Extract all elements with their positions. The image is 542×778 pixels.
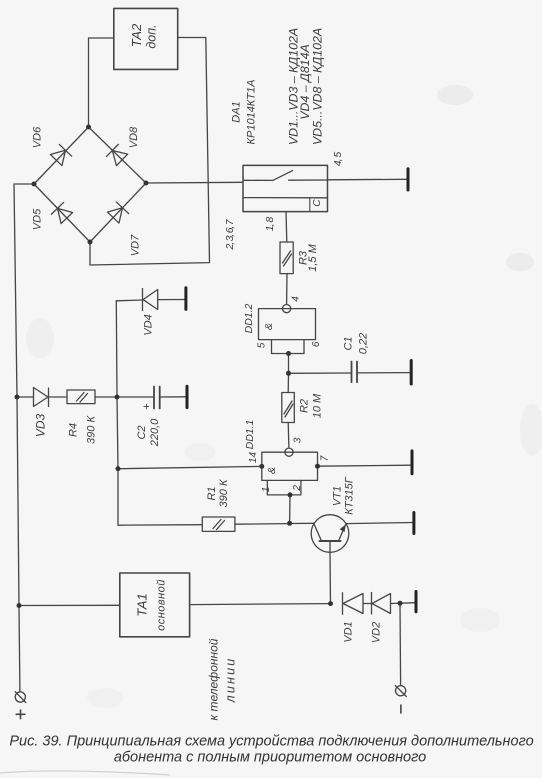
logic gate DD1.2 <box>283 305 291 313</box>
svg-text:4, 5: 4, 5 <box>332 152 344 167</box>
resistor R1 <box>202 517 235 531</box>
wire left vertical VD4/R4/R1 net <box>116 301 118 525</box>
svg-text:КР1014КТ1А: КР1014КТ1А <box>245 80 257 145</box>
svg-text:7: 7 <box>320 455 331 461</box>
svg-text:3: 3 <box>292 437 303 443</box>
wire VD4 to ground <box>158 299 186 301</box>
ground <box>412 513 415 534</box>
wire DD1.2 input pins 5,6 loop <box>272 340 305 354</box>
wire C2 to ground <box>160 396 187 398</box>
svg-text:VD2: VD2 <box>371 622 383 643</box>
svg-text:1: 1 <box>261 487 272 493</box>
wire rail to VD3 <box>17 396 33 398</box>
svg-text:1, 8: 1, 8 <box>264 217 276 232</box>
diode VD1 <box>342 593 344 614</box>
wire VD3 to R4 <box>49 396 68 398</box>
wire DD1.1 pin 7 to ground <box>318 465 413 466</box>
svg-text:С2: С2 <box>136 425 148 439</box>
diode VD8 <box>106 144 128 166</box>
svg-text:0,22: 0,22 <box>358 333 370 354</box>
resistor R3 <box>280 242 293 274</box>
transistor Q1 VT1 KT315G <box>311 515 349 553</box>
svg-text:С1: С1 <box>343 336 355 350</box>
svg-text:С: С <box>312 199 323 207</box>
wire TA2 right down to bridge bottom node <box>90 38 210 266</box>
svg-text:+: + <box>141 403 153 409</box>
svg-text:&: & <box>266 467 278 474</box>
wire TA1 to VD1 node <box>190 604 331 605</box>
svg-text:&: & <box>263 323 275 330</box>
svg-text:10 М: 10 М <box>312 393 324 418</box>
svg-text:DA1: DA1 <box>231 101 243 122</box>
svg-text:КТ315Г: КТ315Г <box>344 476 356 515</box>
svg-text:VD4: VD4 <box>143 314 155 335</box>
wire to R1 <box>118 524 202 527</box>
op-amp U1 : analog switch DA1 KP1014KT1A box <box>243 165 328 211</box>
ground <box>410 361 413 385</box>
svg-text:VD6: VD6 <box>32 126 44 148</box>
svg-text:R2: R2 <box>298 399 310 413</box>
wire DD1.1 inputs down to R1/VT1 node <box>289 495 291 523</box>
svg-text:VD3: VD3 <box>34 414 48 438</box>
ground <box>411 451 414 474</box>
svg-text:4: 4 <box>290 296 301 302</box>
svg-text:VT1: VT1 <box>332 486 344 506</box>
svg-text:доп.: доп. <box>145 24 159 48</box>
svg-text:Рис. 39. Принципиальная схема: Рис. 39. Принципиальная схема устройства… <box>9 734 533 750</box>
telephone TA2 (доп.) box <box>114 8 178 69</box>
svg-text:абонента с полным приоритетом: абонента с полным приоритетом основного <box>114 750 426 766</box>
svg-text:390 К: 390 К <box>86 416 98 444</box>
wire DA1 pins 4,5 to ground <box>328 178 409 181</box>
ground <box>184 288 187 310</box>
svg-text:R1: R1 <box>206 486 218 500</box>
svg-text:ТА2: ТА2 <box>129 23 144 47</box>
svg-text:220,0: 220,0 <box>149 418 161 447</box>
terminal plus <box>15 692 25 702</box>
wire DA1 control pin 1,8 to R3 <box>285 212 288 243</box>
svg-text:основной: основной <box>156 579 168 631</box>
svg-text:VD1: VD1 <box>343 621 355 642</box>
svg-text:DD1.1: DD1.1 <box>244 420 256 450</box>
svg-text:5: 5 <box>257 342 268 348</box>
wire VD1 to VD2 <box>363 603 371 605</box>
diode VD3 <box>34 388 49 407</box>
svg-text:6: 6 <box>311 341 322 347</box>
wire C1 to ground <box>357 372 411 374</box>
wire DD1.1 input pins 1,2 loop <box>267 480 301 495</box>
wire left rail from bridge left node down to + terminal <box>14 184 34 692</box>
wire rail to TA1 <box>19 604 120 606</box>
svg-text:DD1.2: DD1.2 <box>243 303 255 333</box>
svg-text:VD7: VD7 <box>130 234 142 256</box>
wire R1 to node and VT1 collector <box>235 523 290 526</box>
wire VD2 to ground <box>391 602 417 605</box>
resistor R2 <box>282 393 295 423</box>
ground <box>407 169 410 190</box>
telephone TA1 (основной) box <box>120 573 190 637</box>
svg-text:390 К: 390 К <box>218 479 230 507</box>
wire node to R2 <box>287 373 289 392</box>
wire VT1 emitter to ground <box>346 523 414 524</box>
wire DD1.1 pin 14 to left vertical <box>118 466 262 468</box>
svg-text:линии: линии <box>224 657 238 704</box>
wire VT1 base down <box>329 552 332 603</box>
diode VD2 <box>371 593 373 615</box>
svg-text:ТА1: ТА1 <box>135 593 150 616</box>
wire R3 to DD1.2 output <box>286 274 288 305</box>
svg-text:VD5: VD5 <box>32 208 44 230</box>
switch contact inside DA1 <box>243 179 273 181</box>
resistor R4 <box>67 390 95 404</box>
wire R2 to DD1.1 output <box>287 423 290 449</box>
diode VD6 <box>50 144 72 166</box>
svg-text:1,5 М: 1,5 М <box>307 243 319 271</box>
svg-text:VD8: VD8 <box>128 126 140 148</box>
diode VD4 <box>143 290 158 310</box>
wire DD1.2 inputs to C1 node <box>288 354 290 374</box>
logic gate DD1.1 <box>285 448 293 456</box>
wire node down to - terminal <box>399 603 402 685</box>
capacitor C2 <box>153 387 155 409</box>
wire R4 to C2 <box>95 396 154 398</box>
svg-text:к телефонной: к телефонной <box>207 638 221 720</box>
ground <box>186 386 189 407</box>
ground <box>415 592 418 612</box>
svg-text:2: 2 <box>292 485 303 492</box>
terminal minus <box>396 686 406 696</box>
capacitor C1 <box>351 362 353 383</box>
diode VD5 <box>51 202 73 224</box>
wire TA2 left to bridge top node <box>89 38 114 127</box>
svg-text:VD5...VD8 – КД102А: VD5...VD8 – КД102А <box>311 28 325 145</box>
svg-text:R4: R4 <box>68 423 80 437</box>
diode VD7 <box>107 202 129 223</box>
diode bridge arms <box>34 127 89 184</box>
svg-text:2, 3, 6, 7: 2, 3, 6, 7 <box>224 218 236 250</box>
svg-text:14: 14 <box>248 452 259 464</box>
wire node to C1 <box>289 372 352 374</box>
wire bridge right node to DA1 pin 2,3,6,7 <box>146 181 243 184</box>
scan artifact curve bottom left <box>0 771 170 775</box>
wire VD4 branch <box>116 299 142 302</box>
